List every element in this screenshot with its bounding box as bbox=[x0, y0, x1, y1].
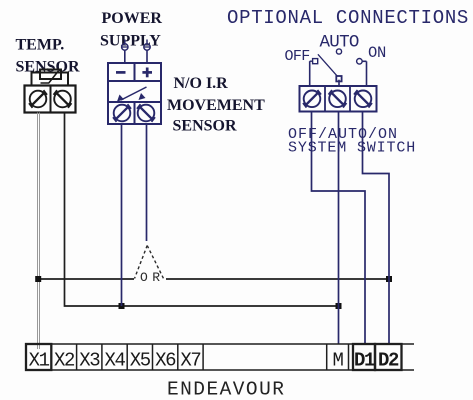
svg-text:X7: X7 bbox=[180, 350, 200, 372]
svg-text:SENSOR: SENSOR bbox=[173, 118, 237, 135]
svg-text:OPTIONAL CONNECTIONS: OPTIONAL CONNECTIONS bbox=[227, 7, 469, 29]
svg-text:POWER: POWER bbox=[102, 10, 163, 27]
svg-text:SYSTEM SWITCH: SYSTEM SWITCH bbox=[288, 140, 416, 157]
svg-text:X2: X2 bbox=[54, 350, 75, 372]
svg-text:X6: X6 bbox=[155, 350, 176, 372]
svg-text:X4: X4 bbox=[104, 350, 125, 372]
svg-text:M: M bbox=[332, 350, 343, 372]
svg-text:D1: D1 bbox=[354, 350, 375, 372]
svg-text:MOVEMENT: MOVEMENT bbox=[167, 97, 265, 114]
svg-text:SUPPLY: SUPPLY bbox=[100, 33, 161, 50]
svg-text:OFF: OFF bbox=[285, 48, 310, 65]
svg-text:X5: X5 bbox=[130, 350, 151, 372]
svg-text:ENDEAVOUR: ENDEAVOUR bbox=[167, 378, 285, 400]
svg-text:TEMP.: TEMP. bbox=[16, 36, 65, 53]
svg-text:ON: ON bbox=[368, 44, 386, 62]
svg-text:X1: X1 bbox=[29, 350, 50, 372]
svg-text:X3: X3 bbox=[79, 350, 100, 372]
svg-text:N/O I.R: N/O I.R bbox=[174, 75, 229, 92]
svg-text:D2: D2 bbox=[378, 350, 399, 372]
